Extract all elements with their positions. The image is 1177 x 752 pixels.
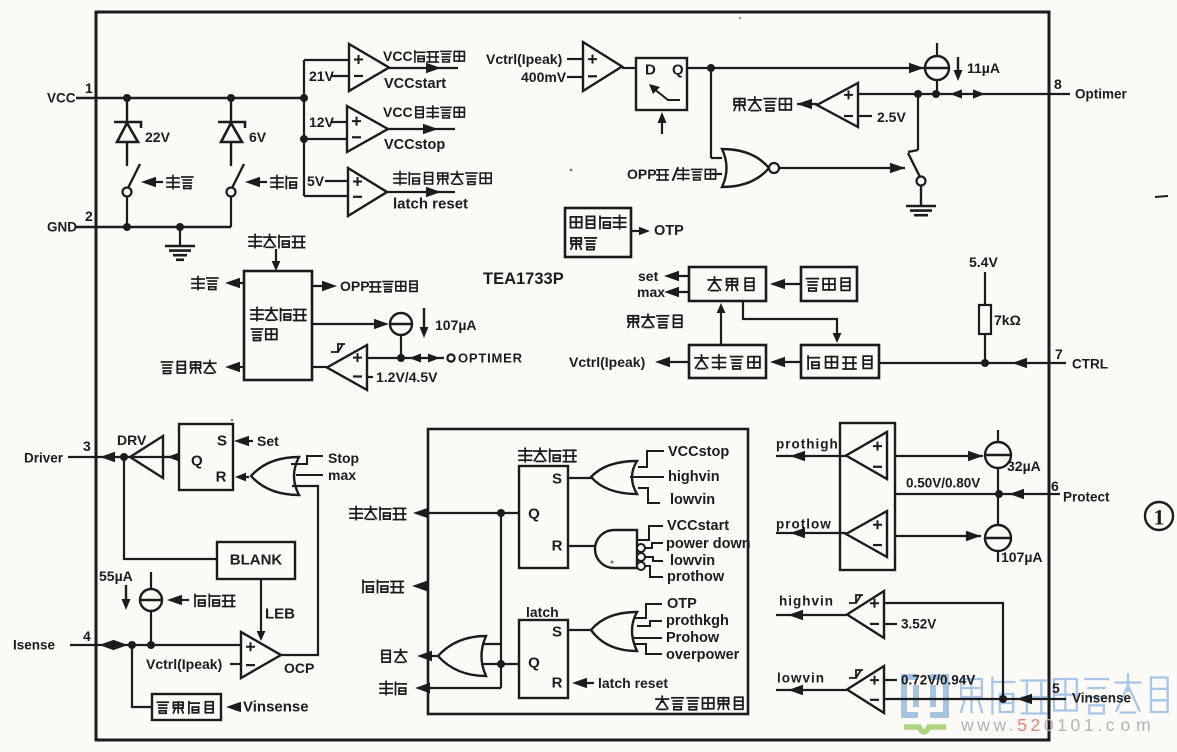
wire Driver output — [68, 456, 179, 458]
svg-text:11µA: 11µA — [967, 60, 1000, 76]
svg-text:3.52V: 3.52V — [901, 617, 936, 632]
wire CTRL net pin 7 — [879, 362, 1066, 364]
wire FF1 Q output — [687, 67, 924, 69]
wire U5 output 超载信号 — [797, 103, 817, 105]
label 0.72V/0.94V reference — [884, 679, 897, 681]
svg-text:OTP: OTP — [667, 596, 697, 612]
svg-text:Prohow: Prohow — [666, 630, 720, 646]
OR gate G2 reset — [251, 457, 299, 495]
junction driver-blank — [120, 453, 128, 461]
comparator U8 OCP — [241, 632, 281, 678]
svg-text:7kΩ: 7kΩ — [994, 312, 1021, 328]
wire buffer to BLANK — [124, 457, 217, 559]
svg-text:DRV: DRV — [117, 432, 147, 448]
label power down input — [645, 543, 663, 548]
svg-text:5.4V: 5.4V — [969, 254, 998, 270]
wire FF4 S input — [568, 629, 592, 631]
watermark text 家电维修资料网 — [961, 675, 1168, 714]
OR gate G3 restart-set — [591, 461, 637, 494]
svg-text:Vctrl(Ipeak): Vctrl(Ipeak) — [486, 51, 562, 67]
watermark logo brackets — [904, 677, 946, 715]
ground symbol main — [179, 227, 181, 245]
svg-text:VCCstart: VCCstart — [667, 518, 729, 534]
svg-text:Vinsense: Vinsense — [1072, 691, 1132, 706]
svg-text:GND: GND — [47, 220, 77, 235]
svg-text:6V: 6V — [249, 129, 267, 145]
svg-text:power down: power down — [666, 536, 751, 552]
wire prothigh output — [776, 455, 840, 457]
junction Q-vertical — [497, 509, 505, 517]
FF1 clock arrow — [661, 120, 663, 134]
svg-text:2: 2 — [85, 208, 93, 224]
block 重新启动控制 (restart control) — [244, 271, 312, 380]
flip-flop FF1 D/Q — [636, 58, 687, 110]
comparator U12 lowvin 0.72V/0.94V — [847, 666, 884, 713]
junction VCC-D1 — [123, 94, 131, 102]
wire U1 output — [389, 67, 458, 69]
label 锁定 switch S1 — [141, 177, 156, 187]
wire highvin output — [776, 614, 847, 616]
comparator U3 latch reset — [348, 168, 387, 216]
svg-text:22V: 22V — [145, 129, 171, 145]
svg-text:VCC: VCC — [383, 104, 413, 120]
junction vinsense — [999, 695, 1007, 703]
label prothkgh input — [637, 621, 662, 626]
OR gate G5 latch-set — [591, 612, 637, 651]
svg-text:VCC: VCC — [383, 48, 413, 64]
label Set input — [234, 436, 249, 446]
U11 schmitt symbol — [849, 595, 863, 603]
scan artifact dash — [1155, 196, 1168, 197]
switch S3 — [908, 150, 918, 152]
label highvin input — [630, 476, 664, 478]
wire OTP output — [631, 230, 644, 232]
bubble G4 prothow — [637, 562, 645, 570]
label 55uA — [125, 585, 127, 601]
border frame — [96, 12, 1049, 740]
svg-text:lowvin: lowvin — [670, 553, 715, 569]
junction FF1-NOR — [707, 64, 715, 72]
svg-text:BLANK: BLANK — [230, 552, 283, 569]
U12 schmitt symbol — [849, 670, 863, 678]
svg-text:Stop: Stop — [328, 450, 359, 466]
wire Vinsense net pin 5 — [884, 698, 1066, 700]
junction isense-I3 — [147, 641, 155, 649]
wire LEB — [260, 579, 262, 633]
svg-text:CTRL: CTRL — [1072, 357, 1108, 372]
svg-text:OPTIMER: OPTIMER — [458, 351, 523, 366]
junction optimer-I1 — [932, 90, 940, 98]
svg-text:0.50V/0.80V: 0.50V/0.80V — [906, 476, 980, 491]
svg-text:400mV: 400mV — [521, 69, 567, 85]
svg-text:latch: latch — [526, 604, 559, 620]
wire VCC rail — [76, 97, 304, 99]
wire U3 output — [387, 191, 455, 193]
svg-text:3: 3 — [83, 438, 91, 454]
wire Isense net — [70, 644, 241, 646]
flip-flop FF2 S/Q/R — [179, 424, 233, 490]
resistor R1 7k — [984, 272, 986, 305]
wire U6 plus to OPTIMER node — [367, 357, 444, 359]
junction GND-D1 — [123, 223, 131, 231]
wire optimer to switch S3 — [917, 94, 919, 150]
current source I5 107uA — [985, 525, 1011, 551]
wire G6 output 停止 — [421, 655, 438, 657]
junction GND-gnd — [176, 223, 184, 231]
label 软启动 output — [416, 585, 428, 587]
svg-text:max: max — [328, 467, 356, 483]
svg-text:OPP: OPP — [340, 278, 370, 294]
AND gate G4 restart-reset — [595, 530, 637, 568]
svg-text:TEA1733P: TEA1733P — [483, 270, 564, 288]
wire oscillator to slope comp — [743, 301, 837, 336]
label 锁定 output — [229, 282, 244, 284]
svg-text:VCCstop: VCCstop — [384, 137, 445, 153]
label overpower input — [635, 644, 662, 654]
current source I2 107uA — [390, 313, 412, 335]
svg-text:OCP: OCP — [284, 660, 314, 676]
svg-text:VCCstop: VCCstop — [668, 444, 729, 460]
svg-text:LEB: LEB — [265, 606, 295, 623]
wire GND rail — [76, 226, 231, 228]
svg-text:32µA: 32µA — [1007, 458, 1041, 474]
comparator U6 optimer 1.2V/4.5V — [327, 345, 367, 390]
label 频率设置 (frequency set) — [628, 314, 682, 327]
current source I4 32uA — [985, 442, 1011, 468]
block 斜坡补偿 (slope compensation) — [801, 345, 879, 378]
wire NOR output to switch S3 — [779, 167, 905, 169]
wire 锁存 output — [419, 687, 501, 689]
label lowvin input — [638, 488, 660, 503]
label 软启动 soft-start input — [167, 595, 182, 605]
label 锁存 switch S2 — [245, 177, 260, 187]
block 数字控制电路 digital control box — [428, 429, 748, 714]
switch S2 (latch) — [232, 164, 244, 188]
svg-text:107µA: 107µA — [435, 317, 477, 333]
wire I4 to protect node — [997, 468, 999, 494]
wire Q to buffer — [163, 456, 179, 458]
label VCCstop input — [638, 451, 664, 467]
junction latchQ — [497, 660, 505, 668]
bubble G4 lowvin — [637, 553, 645, 561]
junction VCC-D2 — [227, 94, 235, 102]
comparator U9 prothigh — [846, 432, 887, 479]
wire OVP sense — [132, 645, 152, 707]
wire FF3 R input — [568, 545, 596, 547]
svg-text:lowvin: lowvin — [777, 671, 825, 686]
svg-text:R: R — [552, 675, 563, 692]
wire FF3 S input — [568, 477, 592, 479]
svg-text:107µA: 107µA — [1001, 549, 1043, 565]
label prothow input — [645, 566, 663, 577]
label OPP开关信号 output — [312, 285, 330, 287]
label 1.2V/4.5V reference — [367, 376, 373, 378]
junction optimer-switch — [914, 90, 922, 98]
svg-text:S: S — [217, 433, 227, 450]
svg-text:Q: Q — [191, 453, 203, 470]
svg-text:Driver: Driver — [24, 451, 64, 466]
label max input — [296, 474, 323, 476]
zener diode D1 22V — [126, 98, 128, 122]
current source I3 55uA soft start — [140, 589, 162, 611]
svg-text:OPP: OPP — [627, 166, 657, 182]
zener diode D2 6V — [230, 98, 232, 122]
flip-flop FF3 restart S/Q/R — [519, 466, 568, 568]
svg-text:1: 1 — [85, 80, 93, 96]
wire U10 to I5 — [895, 535, 981, 537]
svg-text:protlow: protlow — [776, 517, 832, 532]
junction VCC-bus — [300, 94, 308, 102]
svg-text:2.5V: 2.5V — [877, 109, 906, 125]
label 107uA — [423, 308, 425, 329]
wire VCC comparator bus — [303, 60, 305, 196]
svg-text:R: R — [216, 469, 227, 486]
block 模拟控制 (analog control) — [689, 345, 766, 378]
svg-text:highvin: highvin — [668, 469, 720, 485]
svg-text:Protect: Protect — [1063, 490, 1110, 505]
label 重新启动 (restart) top — [249, 234, 305, 247]
junction bus-12V — [300, 135, 308, 143]
svg-text:D: D — [645, 62, 656, 79]
block BLANK — [217, 542, 295, 579]
svg-text:Vctrl(Ipeak): Vctrl(Ipeak) — [569, 354, 645, 370]
label 重新启动 title — [519, 448, 576, 461]
junction CTRL-R1 — [981, 359, 989, 367]
svg-text:overpower: overpower — [666, 647, 740, 663]
svg-text:21V: 21V — [309, 68, 335, 84]
wire protlow output — [776, 532, 840, 534]
svg-text:Optimer: Optimer — [1075, 87, 1128, 102]
svg-text:R: R — [552, 538, 563, 555]
svg-text:8: 8 — [1054, 76, 1062, 92]
buffer U7 DRV — [130, 436, 163, 478]
block 过压检测 (overvoltage detect) — [152, 694, 221, 720]
comparator U1 VCCstart — [349, 44, 389, 91]
svg-text:Isense: Isense — [13, 638, 56, 653]
wire Optimer net pin 8 — [858, 93, 1070, 95]
wire FF4 Q output — [481, 663, 519, 665]
svg-text:0.72V/0.94V: 0.72V/0.94V — [901, 673, 975, 688]
wire U11 plus input — [884, 603, 1003, 699]
svg-text:prothkgh: prothkgh — [666, 613, 729, 629]
svg-text:max: max — [637, 284, 665, 300]
node OPTIMER — [447, 354, 454, 361]
svg-text:S: S — [552, 471, 562, 488]
svg-text:Q: Q — [672, 62, 684, 79]
label 关断电源 output — [229, 366, 244, 368]
svg-text:lowvin: lowvin — [670, 492, 715, 508]
wire U2 output — [388, 128, 455, 130]
wire lowvin output — [776, 689, 847, 691]
comparator U11 highvin 3.52V — [847, 591, 884, 638]
wire FF1 to NOR gate — [710, 68, 712, 158]
wire analog control up to oscillator — [720, 310, 722, 345]
label 3.52V reference — [884, 623, 897, 625]
bubble G4 power-down — [637, 544, 645, 552]
label 2.5V reference — [858, 115, 872, 117]
svg-text:set: set — [638, 268, 659, 284]
wire U4 to DFF — [622, 67, 636, 69]
svg-text:VCCstart: VCCstart — [384, 76, 446, 92]
page number circled 1 — [1145, 502, 1173, 530]
wire slope comp to analog control — [774, 361, 801, 363]
wire restart into block — [275, 249, 277, 263]
svg-text:Vctrl(Ipeak): Vctrl(Ipeak) — [146, 656, 222, 672]
svg-text:12V: 12V — [309, 114, 335, 130]
junction isense-ovp — [128, 641, 136, 649]
watermark green swoosh — [904, 727, 946, 732]
label 11uA — [957, 57, 959, 72]
svg-text:6: 6 — [1051, 478, 1059, 494]
wire OCP to G2 input — [281, 486, 318, 655]
label OTP input — [635, 604, 662, 618]
block 振荡器 (oscillator) — [689, 267, 766, 301]
svg-text:Q: Q — [528, 655, 540, 672]
junction protect — [995, 490, 1003, 498]
ground symbol switch S3 — [920, 187, 922, 205]
current source I1 11uA — [925, 56, 949, 80]
flip-flop FF4 latch S/Q/R — [519, 620, 568, 698]
block 温度保护电路 (thermal protection) — [565, 208, 631, 257]
svg-text:prothigh: prothigh — [776, 437, 839, 452]
label Prohow input — [634, 637, 662, 639]
svg-text:4: 4 — [83, 628, 91, 644]
comparator U10 protlow — [846, 511, 887, 557]
U6 schmitt symbol — [331, 344, 345, 352]
label Stop input — [291, 456, 323, 464]
wire U9 to I4 — [895, 455, 983, 457]
switch S1 (latch-off) — [128, 164, 140, 188]
wire modulator to oscillator — [772, 283, 801, 285]
svg-text:Q: Q — [528, 506, 540, 523]
wire FF3 Q output 重新启动 — [417, 512, 519, 514]
svg-text:Vinsense: Vinsense — [243, 699, 309, 716]
comparator U4 Vctrl(Ipeak) — [583, 42, 622, 91]
svg-text:OTP: OTP — [654, 223, 684, 239]
wire G6 top input — [482, 643, 501, 645]
svg-text:latch reset: latch reset — [393, 196, 468, 213]
svg-text:www.520101.com: www.520101.com — [960, 715, 1157, 735]
label VCCstart input — [637, 526, 663, 540]
label 锁存器复位信号 / latch reset — [394, 172, 491, 185]
label Vctrl(Ipeak) output — [659, 361, 689, 363]
svg-text:VCC: VCC — [47, 91, 76, 106]
svg-text:55µA: 55µA — [99, 568, 133, 584]
comparator U5 overload 2.5V — [817, 83, 858, 127]
label max output — [668, 291, 689, 293]
comparator U2 VCCstop — [347, 106, 388, 152]
NOR gate G1 OPP — [722, 149, 769, 187]
wire U6 output to block — [312, 366, 327, 368]
wire Protect net pin 6 — [895, 493, 1060, 495]
svg-text:S: S — [552, 624, 562, 641]
OR gate G6 stop — [438, 636, 486, 676]
svg-text:latch reset: latch reset — [598, 675, 668, 691]
svg-text:5: 5 — [1052, 680, 1060, 696]
svg-text:Set: Set — [257, 433, 279, 449]
block 调制器 (modulator) — [801, 267, 857, 301]
svg-text:1: 1 — [1154, 505, 1165, 530]
label set output — [668, 275, 689, 277]
label Vinsense input to OVP — [226, 702, 241, 712]
junction OPTIMER node — [397, 354, 405, 362]
wire block to I2 — [312, 323, 382, 325]
label lowvin2 input — [645, 557, 663, 561]
wire I2 to optimer node — [400, 335, 402, 358]
svg-text:prothow: prothow — [667, 569, 725, 585]
block protect comparators box — [840, 423, 895, 570]
svg-text:highvin: highvin — [779, 594, 834, 609]
wire G2 to R — [245, 476, 249, 478]
wire Q vertical bus — [500, 513, 502, 688]
svg-text:1.2V/4.5V: 1.2V/4.5V — [376, 369, 438, 385]
label latch reset input — [572, 678, 587, 688]
svg-text:7: 7 — [1055, 346, 1063, 362]
svg-text:5V: 5V — [307, 173, 325, 189]
